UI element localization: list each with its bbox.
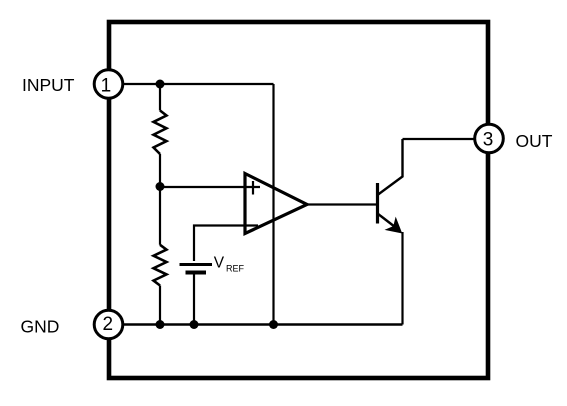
wire: input node horizontal from pin 1 to power branch xyxy=(121,83,274,85)
svg-text:3: 3 xyxy=(483,129,494,150)
pin 1 circle xyxy=(94,70,123,99)
battery VREF xyxy=(180,265,213,325)
wire: VREF top to comparator inverting input xyxy=(194,226,258,262)
wire: collector to pin 3 xyxy=(403,138,477,140)
node dot: input/R1 junction xyxy=(156,80,165,89)
resistor R1 (upper divider resistor) xyxy=(154,84,167,186)
svg-text:INPUT: INPUT xyxy=(22,75,75,95)
pin 3 circle xyxy=(475,124,504,153)
node dot: divider midpoint xyxy=(156,182,165,191)
ground rail from pin 2 to emitter xyxy=(121,323,403,325)
node dot: R2 at ground rail xyxy=(156,320,165,329)
transistor Q1 collector xyxy=(378,139,403,195)
package outline box xyxy=(109,22,488,378)
svg-text:V: V xyxy=(214,255,225,272)
node dot: battery at ground rail xyxy=(190,320,199,329)
transistor Q1 base bar xyxy=(376,183,379,224)
resistor R2 (lower divider resistor) xyxy=(154,187,167,325)
pin 2 circle xyxy=(94,310,123,339)
wire: emitter down to ground rail xyxy=(401,232,403,325)
wire: comparator supply vertical from input node to ground rail xyxy=(272,84,274,325)
node dot: supply branch at ground rail xyxy=(269,320,278,329)
svg-text:REF: REF xyxy=(226,264,245,274)
svg-text:1: 1 xyxy=(101,75,112,96)
op-amp comparator U1 xyxy=(245,174,307,234)
plus sign on non-inverting input xyxy=(252,181,254,195)
transistor Q1 emitter with arrow xyxy=(378,214,398,229)
svg-text:GND: GND xyxy=(21,317,60,337)
svg-text:OUT: OUT xyxy=(516,131,553,151)
wire: divider midpoint to comparator non-inverting input xyxy=(160,186,260,188)
svg-text:2: 2 xyxy=(103,314,114,335)
wire: comparator output to transistor base xyxy=(307,203,376,205)
